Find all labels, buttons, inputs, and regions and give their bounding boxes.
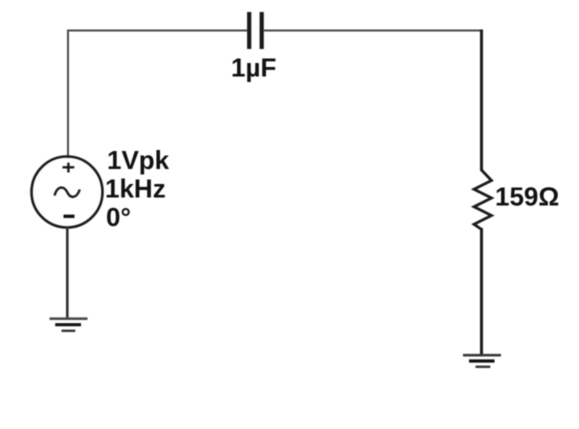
label: source 1Vpk 1kHz 0° xyxy=(105,145,170,232)
ground symbol left xyxy=(50,319,88,331)
capacitor C1 xyxy=(249,12,262,49)
ground symbol right xyxy=(463,355,501,367)
svg-text:1Vpk: 1Vpk xyxy=(107,145,170,175)
wire: V1 top to top-left corner xyxy=(67,31,69,159)
AC source V1 xyxy=(32,157,103,228)
wire: V1 bottom to left ground xyxy=(66,227,69,319)
svg-text:1kHz: 1kHz xyxy=(105,174,166,204)
svg-text:159Ω: 159Ω xyxy=(495,182,559,212)
svg-text:0°: 0° xyxy=(106,202,131,232)
resistor R1 zigzag xyxy=(474,170,492,229)
wire: top horizontal, left corner to capacitor left plate xyxy=(67,30,247,32)
wire: top-right corner down to resistor R1 xyxy=(480,30,483,172)
wire: resistor R1 to right ground xyxy=(480,228,483,355)
svg-text:1µF: 1µF xyxy=(231,53,276,83)
wire: top horizontal, capacitor right plate to top-right corner xyxy=(264,30,482,32)
